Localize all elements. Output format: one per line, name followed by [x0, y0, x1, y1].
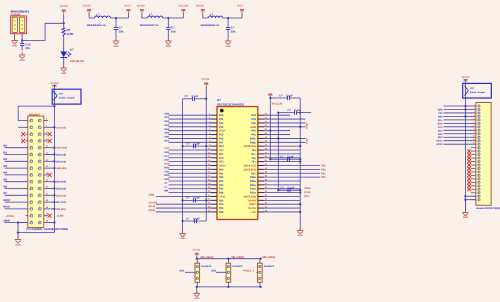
wire J3 top pin	[259, 259, 261, 264]
svg-text:MB (JS5V): MB (JS5V)	[201, 256, 214, 259]
wire filter 1 cap to ground	[115, 34, 117, 41]
svg-text:Header3: Header3	[201, 265, 211, 268]
capacitor C7 104	[114, 18, 124, 34]
svg-text:VCC5V: VCC5V	[83, 5, 91, 8]
jumper header J1 body Header3	[195, 263, 212, 282]
connector P2 Header20X body	[476, 103, 491, 206]
ground GND at CON1 pin1	[11, 38, 17, 48]
svg-text:104: 104	[119, 29, 124, 33]
svg-text:P31: P31	[219, 172, 224, 175]
svg-text:GND: GND	[166, 45, 171, 48]
svg-text:SBHE: SBHE	[3, 219, 10, 222]
svg-text:VCC?: VCC?	[237, 5, 244, 8]
wire J1 bottom pin	[196, 282, 198, 287]
svg-text:Header3: Header3	[233, 265, 243, 268]
svg-text:+5dB: +5dB	[250, 126, 256, 129]
svg-text:5: 5	[474, 117, 475, 120]
svg-text:GND: GND	[164, 163, 170, 166]
svg-text:VCC3.3V: VCC3.3V	[178, 5, 188, 8]
wire LED D4 to ground	[63, 58, 65, 69]
svg-text:P17: P17	[219, 141, 224, 144]
wire filter 2 input	[142, 13, 148, 18]
net labels right of U1 lower	[304, 187, 312, 198]
ground GND of filter 3	[225, 38, 231, 48]
junctions right bus	[299, 145, 301, 213]
svg-text:22: 22	[46, 186, 48, 189]
ground GND below P2	[462, 209, 468, 219]
LED D4 LED-BLUE	[60, 47, 84, 63]
svg-text:MB (JS5V): MB (JS5V)	[231, 256, 244, 259]
svg-text:RST: RST	[219, 145, 224, 148]
svg-text:XT1: XT1	[219, 161, 224, 164]
svg-text:P23a: P23a	[250, 188, 256, 191]
svg-text:P22a: P22a	[250, 192, 256, 195]
connector P1 Header label	[29, 112, 41, 116]
svg-text:VCC?: VCC?	[124, 5, 131, 8]
svg-text:0.1uF: 0.1uF	[193, 143, 200, 146]
svg-text:0.1uF: 0.1uF	[192, 95, 199, 98]
svg-text:SD2: SD2	[164, 120, 169, 123]
svg-text:C?: C?	[186, 143, 190, 146]
svg-text:SD1: SD1	[164, 116, 169, 119]
connector P1 PC104 body	[28, 116, 44, 227]
svg-text:SD7: SD7	[164, 139, 169, 142]
svg-text:IR5: IR5	[3, 179, 8, 182]
wire CON1 pin5	[21, 34, 23, 41]
connector CON1 MINI-USB label	[11, 10, 29, 17]
svg-text:Header20X(1P27MM): Header20X(1P27MM)	[476, 207, 500, 210]
svg-text:IR2: IR2	[3, 158, 8, 161]
svg-text:104: 104	[231, 29, 236, 33]
svg-text:DRQ0: DRQ0	[3, 199, 11, 202]
svg-text:GND: GND	[61, 72, 66, 75]
inductor L3 MI0530048AT-1A	[201, 13, 223, 27]
power VCC input of filter 3	[196, 5, 205, 14]
svg-text:0.1uF: 0.1uF	[295, 109, 302, 112]
wire filter 2 cap to ground	[167, 34, 169, 41]
wire filter 1 to power output	[127, 13, 129, 18]
svg-text:P32: P32	[219, 176, 224, 179]
svg-text:(XOUT): (XOUT)	[149, 201, 157, 204]
svg-text:A17: A17	[164, 155, 169, 158]
svg-text:P25a: P25a	[250, 180, 256, 183]
ground GND below LED D4	[61, 65, 67, 75]
svg-text:TXD: TXD	[164, 170, 169, 173]
svg-text:1: 1	[474, 103, 475, 106]
svg-text:GND: GND	[194, 297, 199, 300]
power VCC5V top left	[60, 5, 68, 15]
jumper header J2 body Header3	[226, 263, 243, 282]
connector P2 lower stubs	[471, 193, 476, 200]
wire J2 bottom pin	[227, 282, 229, 287]
svg-text:0.1uF: 0.1uF	[287, 156, 294, 159]
capacitor C8 104	[166, 18, 176, 34]
wire P2 bus to ground	[464, 200, 466, 213]
svg-text:3: 3	[474, 110, 475, 113]
svg-text:VCC5V: VCC5V	[192, 248, 200, 251]
wire filter 3 input	[203, 13, 209, 18]
right pins of P1	[44, 121, 55, 223]
svg-text:AEN (A5): AEN (A5)	[56, 167, 67, 170]
svg-text:P26: P26	[219, 211, 224, 214]
junction filter 2	[167, 17, 169, 19]
svg-text:P37: P37	[219, 153, 224, 156]
svg-text:P30: P30	[219, 168, 224, 171]
svg-text:7: 7	[474, 124, 475, 127]
svg-text:T7p: T7p	[251, 157, 256, 160]
power VCC3.3 above JU2	[461, 76, 470, 81]
svg-text:A16: A16	[164, 159, 169, 162]
svg-text:SD6: SD6	[164, 136, 169, 139]
IC U1 right pin names	[244, 114, 257, 214]
svg-text:P23: P23	[219, 199, 224, 202]
ground GND below C12	[19, 52, 25, 62]
wire right bus to ground	[299, 210, 301, 230]
wire filter 3 cap to ground	[227, 34, 229, 41]
inductor L2 MI0530048AT-1A	[140, 13, 163, 27]
svg-text:(R)5C: (R)5C	[249, 203, 256, 206]
svg-text:(CTRL): (CTRL)	[6, 215, 14, 218]
power output of filter 2	[178, 5, 188, 14]
svg-text:GND: GND	[226, 45, 231, 48]
junctions on P1 right bus	[53, 126, 55, 224]
svg-text:P12: P12	[219, 122, 224, 125]
svg-text:(XIN): (XIN)	[149, 194, 155, 197]
svg-text:+A/D: +A/D	[219, 195, 225, 198]
svg-text:P26a: P26a	[250, 176, 256, 179]
wire J2 top pin	[227, 259, 229, 264]
svg-text:C?: C?	[288, 109, 292, 112]
junction right bus row4	[299, 126, 301, 128]
svg-text:MI0530048AT-1A: MI0530048AT-1A	[201, 24, 220, 27]
svg-text:P24a: P24a	[250, 184, 256, 187]
wire VCC5 to top rail	[196, 257, 198, 260]
wire filter 2 to power output	[182, 13, 184, 18]
wire to ground below left bus	[182, 221, 184, 233]
wire filter 1 output	[111, 17, 129, 19]
vertical net label right second	[305, 138, 308, 144]
power VCC3.3V right of U1	[268, 94, 282, 106]
svg-text:SA8 (A8): SA8 (A8)	[56, 154, 66, 157]
power VCC input of filter 1	[83, 5, 91, 14]
svg-text:GPA%: GPA%	[304, 187, 312, 190]
wire filter 1 input	[89, 13, 95, 18]
junctions bottom rail	[196, 286, 262, 288]
svg-text:GND: GND	[180, 237, 185, 240]
junction node at LED branch	[63, 22, 65, 24]
net labels right of U1 middle	[321, 165, 326, 180]
vertical wire VCC column left of U1	[205, 99, 207, 221]
svg-text:8: 8	[474, 128, 475, 131]
svg-text:8: 8	[46, 138, 47, 141]
svg-text:26: 26	[46, 199, 48, 202]
wires P2 bottom rows to bus	[464, 195, 476, 201]
svg-text:P22: P22	[321, 168, 326, 171]
svg-text:P36b: P36b	[250, 141, 256, 144]
svg-text:GND+: GND+	[219, 165, 227, 168]
svg-text:0.1uF: 0.1uF	[193, 217, 200, 220]
svg-text:LED-BLUE: LED-BLUE	[70, 59, 84, 63]
svg-text:P43: P43	[251, 118, 256, 121]
svg-text:SSC15(12C5A60S2): SSC15(12C5A60S2)	[217, 102, 244, 106]
svg-text:L?: L?	[210, 13, 214, 17]
svg-text:(2005.511): (2005.511)	[244, 165, 256, 168]
IC U1 left pins	[208, 113, 217, 213]
capacitor C18 0.1uF mid right branch	[269, 156, 301, 162]
svg-text:10: 10	[46, 145, 48, 148]
solder jumper JU1	[52, 85, 81, 106]
connector P2 row13 stub	[471, 147, 476, 149]
svg-text:IR4: IR4	[3, 172, 8, 175]
svg-text:GND: GND	[15, 243, 20, 246]
inductor L1 MI0530048AT-1A	[87, 13, 111, 27]
svg-text:SD5: SD5	[164, 132, 169, 135]
connector P1 bottom label PC104(NEW_CARD)	[26, 228, 67, 231]
capacitor C11 0.1uF on row 9	[181, 143, 211, 149]
svg-text:VCC: VCC	[164, 147, 169, 150]
IC U1 designator and part number	[217, 98, 244, 106]
resistor R5 470R	[62, 28, 73, 37]
svg-text:(SDA): (SDA)	[149, 209, 156, 212]
svg-text:C?: C?	[280, 156, 284, 159]
svg-text:20: 20	[46, 179, 48, 182]
no-connect X marks on P1 left pins	[21, 132, 25, 143]
svg-text:+5V: +5V	[219, 149, 224, 152]
svg-text:VCC5V: VCC5V	[196, 5, 204, 8]
svg-text:SD4 (D4): SD4 (D4)	[56, 181, 66, 184]
svg-text:JU?: JU?	[470, 87, 475, 90]
capacitor C17 0.1uF upper right branch	[278, 109, 311, 115]
svg-text:L?: L?	[149, 13, 153, 17]
wire bottom rail to ground	[196, 287, 198, 293]
wire J1 middle pin	[179, 269, 195, 272]
svg-text:D?: D?	[70, 47, 74, 51]
svg-text:Solder Jumper: Solder Jumper	[470, 91, 485, 94]
net labels left of U1	[149, 112, 171, 212]
wire J3 middle pin	[243, 269, 257, 272]
svg-text:GND (G8): GND (G8)	[56, 147, 67, 150]
capacitor C12 104	[20, 41, 31, 51]
svg-text:WR: WR	[164, 190, 168, 193]
svg-text:L?: L?	[96, 13, 100, 17]
power output of filter 1	[124, 5, 131, 14]
power VCC input of filter 2	[137, 5, 145, 14]
junctions top rail	[196, 258, 262, 260]
wire CON1 pin1 to ground	[14, 34, 16, 40]
svg-text:XT2: XT2	[219, 157, 224, 160]
svg-text:IOR (R3): IOR (R3)	[56, 208, 66, 211]
connector P2 unconnected pins	[471, 151, 476, 189]
svg-text:VCC3.3: VCC3.3	[461, 76, 470, 79]
svg-text:Solder Jumper: Solder Jumper	[59, 97, 75, 100]
wires U1 left bundle	[156, 115, 211, 212]
svg-text:VCC5V: VCC5V	[137, 5, 145, 8]
svg-text:(2005.009): (2005.009)	[244, 195, 256, 198]
svg-text:(P4.5): (P4.5)	[149, 205, 156, 208]
power VCC5V above U1	[201, 78, 209, 87]
solder jumper JU2	[463, 80, 492, 98]
svg-text:LVD+: LVD+	[219, 130, 226, 133]
svg-text:12: 12	[473, 142, 475, 145]
svg-text:9: 9	[474, 131, 475, 134]
svg-text:Header3: Header3	[264, 265, 274, 268]
svg-text:AD1: AD1	[211, 269, 217, 272]
svg-text:6: 6	[474, 121, 475, 124]
svg-text:INT0: INT0	[164, 174, 170, 177]
svg-text:P11: P11	[219, 118, 224, 121]
svg-text:AD0: AD0	[179, 269, 185, 272]
connector CON1 body	[11, 16, 27, 34]
svg-text:KEY2: KEY2	[436, 143, 443, 146]
svg-text:P36: P36	[219, 192, 224, 195]
ground GND below P1	[15, 233, 21, 247]
svg-text:P23: P23	[321, 165, 326, 168]
svg-text:+100: +100	[250, 211, 256, 214]
svg-text:470R: 470R	[67, 32, 74, 36]
svg-text:P20: P20	[321, 176, 326, 179]
capacitor C9 104	[226, 18, 236, 34]
svg-text:JU?: JU?	[59, 92, 64, 95]
IC U1 right pins	[258, 113, 268, 213]
svg-text:VCC5V: VCC5V	[201, 78, 209, 81]
svg-text:TxD2: TxD2	[305, 138, 308, 144]
svg-text:MOSI: MOSI	[3, 206, 10, 209]
capacitor C19 0.1uF lower right branch	[277, 187, 301, 193]
svg-text:IR7: IR7	[3, 192, 8, 195]
svg-text:0.1uF: 0.1uF	[286, 94, 293, 97]
svg-text:P41: P41	[251, 134, 256, 137]
svg-text:(P0): (P0)	[304, 195, 309, 198]
wire J3 bottom pin	[259, 282, 261, 287]
svg-text:P10: P10	[219, 114, 224, 117]
vertical wire VCC3.3 right of U1	[269, 97, 271, 159]
svg-text:32: 32	[46, 220, 48, 223]
svg-text:(2005.009): (2005.009)	[244, 168, 256, 171]
svg-text:104: 104	[25, 46, 30, 50]
power output of filter 3	[237, 5, 244, 14]
wire VBUS to LED branch	[22, 23, 64, 40]
svg-text:P13: P13	[219, 126, 224, 129]
svg-text:2: 2	[474, 107, 475, 110]
svg-text:IR0: IR0	[3, 145, 8, 148]
svg-text:P35: P35	[219, 188, 224, 191]
svg-text:5V+: 5V+	[251, 153, 256, 156]
net labels MB(JS5V) top rail	[201, 256, 276, 259]
svg-text:P4SCL_1: P4SCL_1	[243, 269, 254, 272]
svg-text:SD3: SD3	[164, 124, 169, 127]
capacitor C14 0.1uF on row 23	[181, 197, 211, 203]
wire J1 top pin	[196, 259, 198, 264]
IC U1 body STC12C5A60S2	[217, 107, 258, 220]
svg-text:MI0530048AT-1A: MI0530048AT-1A	[140, 24, 159, 27]
svg-text:P33: P33	[219, 180, 224, 183]
ground GND of filter 1	[113, 38, 119, 48]
ground GND of filter 2	[165, 38, 171, 48]
svg-text:SD0: SD0	[164, 112, 169, 115]
svg-text:0.1uF: 0.1uF	[288, 187, 295, 190]
svg-text:C?: C?	[186, 197, 190, 200]
svg-text:P42: P42	[251, 122, 256, 125]
svg-text:T8+: T8+	[251, 161, 256, 164]
no-connect X marks on P2	[467, 149, 471, 191]
wires U1 right bundle	[264, 115, 320, 212]
svg-text:(2005.006): (2005.006)	[244, 145, 256, 148]
svg-text:GND: GND	[20, 59, 25, 62]
svg-text:C?: C?	[186, 217, 190, 220]
svg-text:PC104(NEW_CARD8) (1P27MM): PC104(NEW_CARD8) (1P27MM)	[26, 228, 67, 231]
svg-text:(T4.5): (T4.5)	[304, 191, 311, 194]
svg-text:P24: P24	[219, 203, 224, 206]
wire JU1 to P1 row1 detour	[18, 105, 55, 121]
wire JU2 to right bus	[464, 98, 466, 212]
junctions on P2 bus	[464, 105, 466, 118]
svg-text:16: 16	[46, 165, 48, 168]
vertical bus right of U1	[299, 98, 301, 210]
svg-text:IR1: IR1	[3, 151, 8, 154]
svg-text:T1a: T1a	[251, 149, 256, 152]
svg-text:A18: A18	[164, 151, 169, 154]
svg-text:RXD: RXD	[164, 166, 169, 169]
svg-text:VCC3.3V: VCC3.3V	[272, 102, 283, 105]
wire filter 3 output	[223, 17, 242, 19]
svg-text:P15: P15	[219, 134, 224, 137]
svg-text:GND: GND	[12, 44, 17, 47]
svg-text:GND: GND	[298, 234, 303, 237]
svg-text:P34: P34	[219, 184, 224, 187]
svg-text:IR6: IR6	[3, 185, 8, 188]
svg-text:VCC3.3: VCC3.3	[51, 82, 60, 85]
svg-text:MB (JS5V): MB (JS5V)	[262, 256, 275, 259]
capacitor C16 0.1uF top right	[270, 94, 300, 100]
svg-text:TN-009: TN-009	[247, 199, 256, 202]
net labels on P1 left wires	[3, 145, 14, 223]
capacitor C10 0.1uF top left decoupling	[183, 95, 207, 101]
svg-text:SD5 (D5): SD5 (D5)	[56, 188, 66, 191]
vertical bus left of U1	[182, 99, 184, 221]
svg-text:C?: C?	[281, 187, 285, 190]
wire J2 middle pin	[211, 269, 225, 272]
svg-text:P40: P40	[251, 130, 256, 133]
wire VCC5V down	[63, 15, 65, 28]
svg-text:MI0530048AT-1A: MI0530048AT-1A	[87, 24, 106, 27]
svg-text:SD6 (D6): SD6 (D6)	[56, 194, 66, 197]
net labels left of P2	[436, 108, 443, 146]
svg-text:VCC5V: VCC5V	[60, 5, 68, 8]
IC U1 left pin names	[219, 114, 227, 214]
svg-text:C?: C?	[279, 94, 283, 97]
power VCC5 bottom	[192, 248, 200, 257]
svg-text:(3.3B): (3.3B)	[57, 215, 64, 218]
svg-text:P25: P25	[219, 207, 224, 210]
svg-text:TN-009: TN-009	[247, 207, 256, 210]
capacitor C15 0.1uF bottom	[186, 217, 200, 223]
ground GND below right bus	[297, 227, 303, 237]
svg-text:10: 10	[473, 135, 475, 138]
wire bottom left decoupling	[181, 220, 206, 222]
svg-text:12: 12	[46, 152, 48, 155]
left pins of P1 with wires	[5, 127, 28, 222]
svg-text:P27: P27	[251, 172, 256, 175]
second vertical right of U1	[277, 111, 279, 190]
svg-text:RxD2: RxD2	[305, 122, 308, 129]
top rail wire of jumper headers	[197, 258, 261, 260]
svg-text:SD4: SD4	[164, 128, 169, 131]
svg-text:4: 4	[474, 114, 475, 117]
wire row16 left	[18, 222, 28, 224]
pin numbers on P1 right pins	[46, 118, 49, 223]
junction filter 3	[227, 17, 229, 19]
bus wire right of P1	[53, 106, 55, 233]
